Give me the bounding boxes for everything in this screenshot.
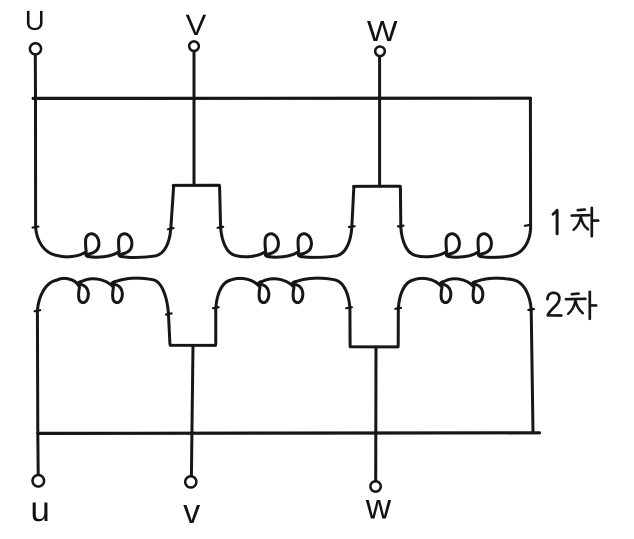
label 1cha hangul stroke2	[572, 214, 589, 217]
node W platform (primary)	[352, 186, 401, 227]
primary winding L3 (W-x)	[401, 227, 531, 257]
pen tick	[395, 308, 401, 309]
terminal label v	[183, 505, 200, 523]
wire V vertical	[193, 51, 196, 185]
pen tick	[35, 310, 41, 311]
pen tick	[213, 307, 219, 308]
label 2cha hangul leg left	[568, 300, 575, 314]
pen tick	[168, 228, 174, 229]
label 1cha hangul leg left	[574, 216, 581, 229]
label 1cha digit stem	[556, 210, 559, 233]
label 2cha hangul leg right	[575, 300, 582, 313]
terminal label w	[366, 500, 391, 518]
pen tick	[218, 227, 224, 228]
terminal v circle	[185, 476, 196, 487]
pen tick	[525, 225, 531, 226]
wire top horizontal bus	[33, 97, 530, 100]
label 1cha digit flag	[553, 211, 557, 215]
label 1cha hangul leg right	[581, 216, 588, 229]
label 2cha digit	[547, 293, 561, 316]
label 2cha hangul vertical	[588, 292, 591, 319]
terminal label U	[27, 11, 43, 30]
secondary winding l3 (w-x)	[398, 278, 531, 309]
wire W vertical	[378, 56, 381, 186]
wire u vertical to terminal	[36, 433, 39, 474]
node V platform (primary)	[171, 185, 221, 228]
label 2cha hangul stroke1	[572, 292, 579, 295]
wire right vertical (secondary)	[531, 309, 533, 433]
wire left vertical (secondary/u)	[36, 311, 39, 434]
label 1cha hangul tick	[592, 219, 598, 222]
label 2cha hangul stroke2	[566, 297, 585, 300]
pen tick	[528, 309, 534, 310]
terminal u circle	[33, 475, 45, 487]
pen tick	[346, 307, 352, 308]
terminal label W	[367, 21, 397, 41]
wire bottom horizontal bus	[38, 431, 540, 435]
pen tick	[33, 227, 39, 228]
terminal w circle	[370, 481, 380, 491]
secondary winding l1 (u-v)	[37, 278, 168, 313]
pen tick	[166, 313, 172, 314]
terminal label u	[33, 503, 48, 522]
primary winding L2 (V-W)	[221, 227, 352, 257]
wire v vertical to terminal	[191, 345, 193, 476]
terminal W circle	[375, 47, 385, 57]
secondary winding l2 (v-w)	[216, 278, 350, 308]
primary winding L1 (U-V)	[36, 227, 171, 257]
node w platform (secondary)	[350, 308, 398, 347]
label 1cha hangul vertical	[590, 208, 593, 236]
label 2cha hangul tick	[590, 304, 596, 307]
pen tick	[349, 225, 355, 228]
label 1cha hangul stroke1	[578, 208, 585, 211]
terminal label V	[186, 15, 206, 35]
wire left vertical (primary)	[34, 98, 37, 227]
wire U vertical	[34, 55, 37, 99]
terminal V circle	[189, 41, 199, 51]
pen tick	[398, 225, 403, 228]
wire right vertical (primary)	[529, 98, 532, 229]
node v platform (secondary)	[168, 308, 215, 345]
wire w vertical to terminal	[374, 347, 377, 481]
terminal U circle	[30, 43, 41, 54]
